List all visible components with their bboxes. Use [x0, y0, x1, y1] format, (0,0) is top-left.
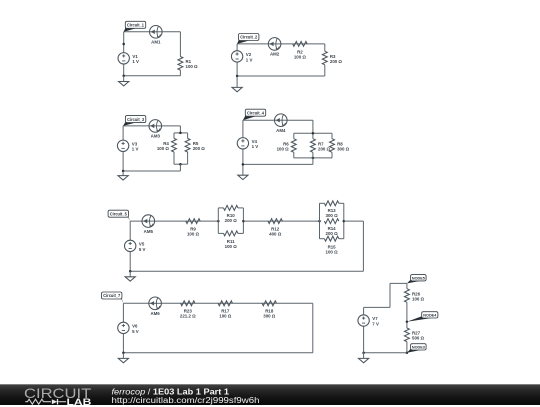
junction C3 top bus	[179, 132, 182, 135]
wire N horiz1	[364, 306, 390, 308]
ground	[118, 358, 128, 362]
V1 labels	[132, 54, 139, 64]
resistor R27	[404, 328, 409, 342]
svg-text:1 V: 1 V	[132, 59, 139, 64]
node flag Circuit_5	[108, 210, 130, 221]
wire C5 R10 left stub	[218, 207, 223, 209]
wire C3 ground stub	[122, 171, 124, 176]
wire C2 left upper	[236, 44, 238, 51]
wire C5 R13 right stub	[339, 202, 344, 204]
junction C5 block1 right	[242, 220, 245, 223]
wire N R27 lower stub	[406, 342, 408, 353]
svg-text:300 Ω: 300 Ω	[263, 314, 276, 319]
R10 labels	[225, 213, 238, 223]
wire C4 right drop	[312, 120, 314, 139]
R15 labels	[326, 245, 339, 255]
svg-text:400 Ω: 400 Ω	[269, 232, 282, 237]
svg-text:AM3: AM3	[151, 134, 161, 139]
footer bar	[0, 384, 540, 406]
resistor R14	[324, 219, 338, 224]
resistor R4	[172, 138, 177, 152]
wire C1 left lower	[123, 64, 125, 76]
wire C3 top bus	[174, 132, 188, 134]
node flag Circuit_1	[124, 21, 146, 32]
wire C4 top bus	[294, 132, 332, 134]
junction C4 bottom bus	[312, 157, 315, 160]
wire C4 R8 upper stub	[331, 133, 333, 139]
AM6 label	[150, 311, 160, 316]
wire C3 right drop	[179, 126, 181, 133]
svg-text:300 Ω: 300 Ω	[326, 213, 339, 218]
wire C3 top	[123, 125, 180, 127]
svg-text:5 V: 5 V	[139, 247, 146, 252]
junction C4 bottom	[242, 163, 245, 166]
junction C5 block2 right	[343, 220, 346, 223]
R23 labels	[180, 309, 196, 319]
voltage source V2	[231, 51, 242, 62]
svg-text:100 Ω: 100 Ω	[225, 244, 238, 249]
resistor R12	[268, 219, 282, 224]
wire C1 right upper	[179, 32, 181, 57]
wire C4 R6 upper stub	[293, 133, 295, 139]
voltage source V3	[117, 140, 128, 151]
V7 labels	[372, 316, 379, 326]
voltage source V5	[125, 240, 136, 251]
R7 labels	[318, 141, 331, 151]
wire N R27 upper stub	[406, 322, 408, 328]
AM3 label	[151, 134, 161, 139]
wire C7 ground stub	[122, 353, 124, 359]
resistor R23	[181, 301, 195, 306]
node flag NODE3	[407, 344, 426, 353]
svg-text:100 Ω: 100 Ω	[412, 296, 425, 301]
wire C5 right run	[344, 220, 364, 222]
wire C5 R10 right stub	[238, 207, 244, 209]
R18 labels	[263, 309, 276, 319]
ground	[118, 176, 128, 180]
resistor R8	[330, 139, 335, 153]
V5 labels	[139, 242, 146, 252]
svg-text:100 Ω: 100 Ω	[326, 250, 339, 255]
resistor R26	[404, 289, 409, 303]
svg-text:NODE3: NODE3	[412, 345, 426, 350]
junction C5 bottom	[129, 270, 132, 273]
wire C1 bottom	[124, 75, 181, 77]
wire C5 R13 left stub	[320, 202, 325, 204]
resistor R3	[322, 51, 327, 65]
AM2 label	[270, 52, 280, 57]
ammeter AM1	[150, 26, 163, 39]
svg-text:1 V: 1 V	[252, 144, 259, 149]
wire C3 R4 lower stub	[173, 152, 175, 164]
junction C1 left	[122, 43, 125, 46]
wire N mid	[406, 302, 408, 322]
wire C5 R11 right stub	[238, 232, 244, 234]
svg-text:Circuit_2: Circuit_2	[240, 35, 258, 40]
wire N vert1	[389, 283, 391, 307]
resistor R7	[310, 139, 315, 153]
svg-text:NODE5: NODE5	[412, 275, 426, 280]
wire C5 right drop	[362, 221, 364, 271]
svg-text:Circuit_5: Circuit_5	[110, 211, 128, 216]
V3 labels	[132, 142, 139, 152]
AM5 label	[144, 229, 154, 234]
wire C5 source lower	[129, 252, 131, 272]
V4 labels	[252, 139, 259, 149]
wire C3 left upper	[122, 126, 124, 140]
svg-text:500 Ω: 500 Ω	[412, 336, 425, 341]
wire C5 block2 right bus	[343, 203, 345, 238]
R26 labels	[412, 291, 425, 301]
wire C5 R11 left stub	[218, 232, 223, 234]
svg-text:ferrocop / 1E03 Lab 1 Part 1: ferrocop / 1E03 Lab 1 Part 1	[112, 387, 230, 396]
V2 labels	[246, 52, 253, 62]
junction C3 bottom bus	[179, 163, 182, 166]
ground	[119, 82, 129, 86]
svg-text:Circuit_3: Circuit_3	[127, 117, 145, 122]
R6 labels	[277, 141, 290, 151]
junction C5 block2 left	[318, 220, 321, 223]
wire C4 top	[243, 119, 313, 121]
R9 labels	[187, 227, 200, 237]
wire C2 top	[237, 43, 325, 45]
wire C5 source upper	[129, 221, 131, 240]
voltage source V1	[118, 53, 129, 64]
svg-text:200 Ω: 200 Ω	[225, 218, 238, 223]
resistor R10	[224, 205, 238, 210]
voltage source V4	[237, 138, 248, 149]
R1 labels	[186, 59, 199, 69]
resistor R11	[224, 231, 238, 236]
R17 labels	[219, 309, 232, 319]
wire C5 left run	[130, 220, 218, 222]
wire C3 bottom	[123, 170, 180, 172]
wire C7 right drop	[312, 303, 314, 353]
wire C7 top	[123, 302, 312, 304]
svg-text:100 Ω: 100 Ω	[219, 314, 232, 319]
wire C4 R8 lower stub	[331, 152, 333, 158]
wire C3 R5 lower stub	[187, 152, 189, 164]
R11 labels	[225, 239, 238, 249]
svg-text:AM5: AM5	[144, 229, 154, 234]
ground	[359, 358, 369, 362]
junction NODE4	[406, 321, 409, 324]
voltage source V6	[118, 322, 129, 333]
svg-text:1 V: 1 V	[246, 57, 253, 62]
resistor R5	[185, 138, 190, 152]
resistor R2	[293, 41, 307, 46]
ground	[238, 175, 248, 179]
wire C5 mid run	[243, 220, 319, 222]
resistor R9	[186, 219, 200, 224]
wire C5 block2 left bus	[319, 203, 321, 238]
wire C7 left upper	[122, 303, 124, 322]
R2 labels	[294, 49, 307, 59]
node flag Circuit_3	[123, 116, 146, 126]
junction C2 bottom	[236, 75, 239, 78]
R5 labels	[193, 141, 206, 151]
svg-text:221.2 Ω: 221.2 Ω	[180, 314, 196, 319]
node flag NODE5	[407, 275, 426, 284]
wire C2 left lower	[236, 62, 238, 76]
junction NODE3	[406, 352, 409, 355]
wire C1 top	[124, 31, 181, 33]
wire C2 ground stub	[236, 76, 238, 87]
svg-text:AM4: AM4	[276, 128, 286, 133]
wire C1 left upper	[123, 32, 125, 53]
svg-text:AM6: AM6	[150, 311, 160, 316]
wire C3 R4 upper stub	[173, 133, 175, 139]
svg-text:100 Ω: 100 Ω	[277, 146, 290, 151]
svg-text:AM2: AM2	[270, 52, 280, 57]
resistor R18	[262, 301, 276, 306]
svg-text:100 Ω: 100 Ω	[157, 146, 170, 151]
ammeter AM6	[149, 297, 162, 310]
ammeter AM3	[149, 120, 162, 133]
svg-text:NODE4: NODE4	[423, 313, 437, 318]
junction C4 top bus	[312, 132, 315, 135]
svg-text:LAB: LAB	[67, 397, 92, 407]
wire C7 left lower	[122, 334, 124, 353]
wire N source top stub	[363, 307, 365, 314]
resistor R15	[324, 236, 338, 241]
wire C4 mid drop	[312, 152, 314, 164]
svg-text:200 Ω: 200 Ω	[193, 146, 206, 151]
svg-text:1 V: 1 V	[132, 147, 139, 152]
AM1 label	[151, 40, 161, 45]
wire C5 bottom	[130, 270, 363, 272]
svg-text:Circuit_4: Circuit_4	[247, 110, 265, 115]
wire N bottom	[364, 352, 407, 354]
svg-text:7 V: 7 V	[372, 321, 379, 326]
wire C1 ground stub	[123, 76, 125, 82]
ammeter AM2	[268, 38, 281, 51]
ground	[232, 87, 242, 91]
svg-text:Circuit_1: Circuit_1	[127, 23, 145, 28]
wire N R26 upper stub	[406, 283, 408, 288]
junction C1 bottom	[122, 74, 125, 77]
logo diode	[52, 399, 58, 404]
svg-text:100 Ω: 100 Ω	[294, 54, 307, 59]
V6 labels	[132, 324, 139, 334]
wire C3 mid drop	[179, 164, 181, 171]
svg-text:AM1: AM1	[151, 40, 161, 45]
svg-text:http://circuitlab.com/cr2j999s: http://circuitlab.com/cr2j999sf9w6h	[112, 396, 260, 405]
resistor R6	[291, 139, 296, 153]
R12 labels	[269, 227, 282, 237]
resistor R17	[218, 301, 232, 306]
wire C3 bottom bus	[174, 163, 188, 165]
R27 labels	[412, 331, 425, 341]
svg-text:200 Ω: 200 Ω	[326, 231, 339, 236]
wire C4 left lower	[242, 149, 244, 175]
wire C2 bottom	[237, 75, 325, 77]
wire C4 bottom bus	[294, 157, 332, 159]
AM4 label	[276, 128, 286, 133]
svg-text:200 Ω: 200 Ω	[318, 146, 331, 151]
ammeter AM4	[275, 114, 288, 127]
ammeter AM5	[142, 215, 155, 228]
svg-text:200 Ω: 200 Ω	[330, 59, 343, 64]
svg-text:Circuit_7: Circuit_7	[103, 293, 121, 298]
R8 labels	[337, 141, 350, 151]
svg-text:100 Ω: 100 Ω	[186, 64, 199, 69]
wire C4 bottom	[243, 163, 313, 165]
R14 labels	[326, 226, 339, 236]
svg-text:100 Ω: 100 Ω	[187, 232, 200, 237]
junction N source bottom	[362, 352, 365, 355]
R13 labels	[326, 208, 339, 218]
wire C7 bottom	[123, 352, 312, 354]
wire N source bottom stub	[363, 326, 365, 353]
wire N horiz2	[390, 282, 407, 284]
logo resistor zigzag	[25, 399, 51, 404]
svg-text:300 Ω: 300 Ω	[337, 146, 350, 151]
svg-text:5 V: 5 V	[132, 329, 139, 334]
wire C5 block1 right bus	[242, 208, 244, 234]
wire C3 left lower	[122, 152, 124, 172]
wire C5 block1 left bus	[217, 208, 219, 234]
wire C4 left upper	[242, 120, 244, 137]
voltage source V7	[358, 315, 369, 326]
node flag NODE4	[407, 312, 438, 322]
wire C4 R6 lower stub	[293, 152, 295, 158]
wire N ground stub	[363, 353, 365, 359]
wire C3 R5 upper stub	[187, 133, 189, 139]
junction C3 bottom	[122, 170, 125, 173]
wire C5 R15 right stub	[339, 238, 344, 240]
wire C1 right lower	[179, 70, 181, 76]
ground	[125, 277, 135, 281]
wire C2 right lower	[324, 65, 326, 76]
resistor R13	[324, 201, 338, 206]
node flag Circuit_7	[102, 292, 124, 303]
node flag Circuit_2	[237, 34, 259, 44]
wire C5 R15 left stub	[320, 238, 325, 240]
R3 labels	[330, 54, 343, 64]
wire C5 ground stub	[129, 271, 131, 277]
junction C7 bottom	[122, 352, 125, 355]
wire C2 right upper	[324, 44, 326, 51]
R4 labels	[157, 141, 170, 151]
node flag Circuit_4	[243, 109, 266, 120]
junction C5 block1 left	[217, 220, 220, 223]
resistor R1	[178, 57, 183, 71]
